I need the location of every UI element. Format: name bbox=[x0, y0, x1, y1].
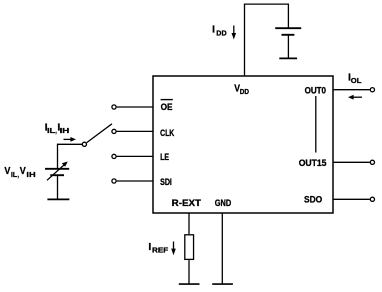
svg-text:OUT15: OUT15 bbox=[299, 158, 327, 168]
svg-text:CLK: CLK bbox=[160, 128, 174, 138]
svg-text:IH: IH bbox=[26, 170, 35, 179]
svg-text:,: , bbox=[17, 170, 19, 179]
svg-text:DD: DD bbox=[216, 28, 227, 37]
svg-text:OUT0: OUT0 bbox=[305, 85, 326, 95]
svg-text:DD: DD bbox=[240, 87, 249, 96]
svg-text:SDI: SDI bbox=[160, 177, 172, 187]
svg-text:I: I bbox=[148, 242, 151, 253]
svg-text:OL: OL bbox=[351, 76, 362, 85]
svg-text:OE: OE bbox=[161, 102, 173, 112]
svg-text:SDO: SDO bbox=[304, 195, 322, 205]
svg-text:LE: LE bbox=[160, 152, 169, 162]
svg-text:GND: GND bbox=[215, 198, 232, 208]
svg-text:V: V bbox=[4, 166, 10, 177]
svg-text:R-EXT: R-EXT bbox=[172, 198, 202, 208]
svg-text:V: V bbox=[20, 166, 26, 177]
svg-text:I: I bbox=[212, 25, 215, 36]
svg-text:IH: IH bbox=[60, 126, 70, 135]
svg-text:REF: REF bbox=[152, 245, 169, 254]
